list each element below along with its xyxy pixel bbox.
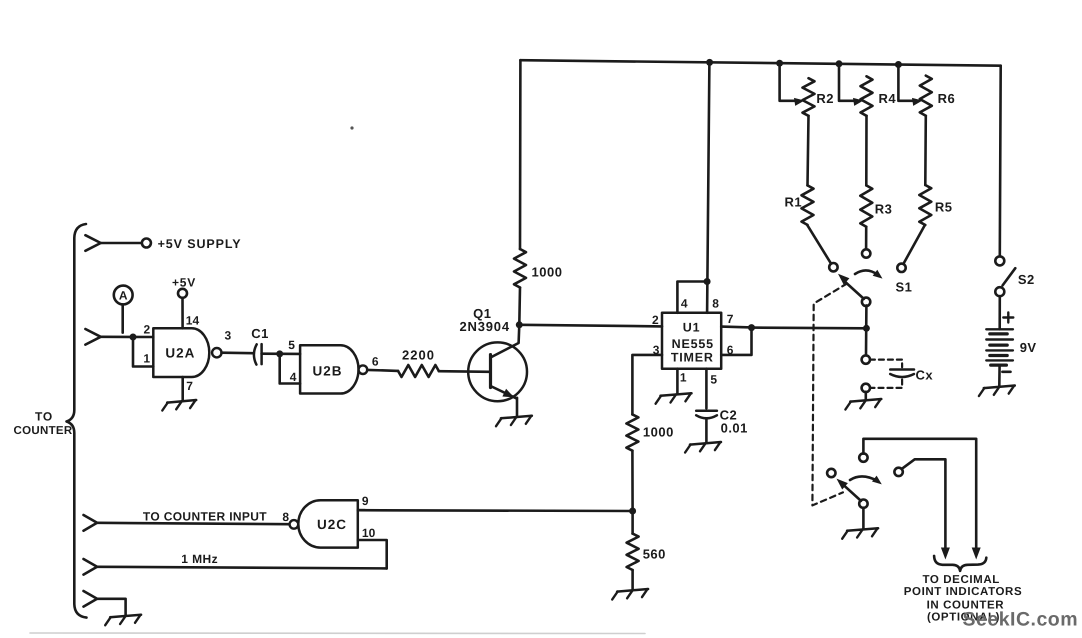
svg-text:2: 2 bbox=[144, 322, 151, 336]
wire pin 3 out bbox=[632, 355, 662, 415]
ground C2 bbox=[690, 442, 721, 445]
wire deck2 pole to ground bbox=[862, 508, 865, 529]
wire Cx circle to ground bbox=[864, 392, 867, 400]
contact deck2 left bbox=[827, 469, 835, 477]
wire R1 to S1 contact bbox=[807, 225, 831, 264]
svg-text:4: 4 bbox=[681, 297, 688, 311]
svg-text:SeekIC.com: SeekIC.com bbox=[963, 609, 1079, 631]
wire U2C pin 9 to node bbox=[358, 509, 633, 512]
svg-text:TO COUNTER INPUT: TO COUNTER INPUT bbox=[143, 510, 267, 524]
wire 2200 to Q1 base bbox=[439, 370, 489, 373]
svg-text:3: 3 bbox=[225, 329, 232, 343]
rotation arrow deck2 bbox=[850, 476, 878, 481]
svg-text:COUNTER: COUNTER bbox=[14, 425, 73, 437]
resistor 1000 pin3 bbox=[626, 414, 638, 450]
svg-text:R2: R2 bbox=[816, 91, 834, 106]
wire pin 4 stub bbox=[677, 282, 707, 313]
wire deck2 top contact up bbox=[863, 439, 976, 549]
arrow to decimal right bbox=[972, 548, 981, 560]
potentiometer R6 bbox=[920, 76, 932, 116]
svg-text:+5V SUPPLY: +5V SUPPLY bbox=[158, 237, 242, 251]
transistor Q1 circle bbox=[468, 342, 527, 401]
svg-text:C1: C1 bbox=[251, 326, 269, 341]
dashed gang link S1 bbox=[812, 284, 847, 506]
brace TO COUNTER bundle bbox=[67, 224, 87, 618]
brace decimal indicators bbox=[934, 556, 986, 571]
resistor 1000 collector load bbox=[514, 249, 526, 288]
pole circle S1 bbox=[862, 298, 870, 306]
resistor R5 bbox=[919, 185, 931, 225]
node rail R6 bbox=[895, 61, 902, 68]
node A junction bbox=[130, 334, 137, 341]
input arrow to U2A bbox=[85, 329, 100, 345]
svg-text:S1: S1 bbox=[896, 280, 913, 295]
nand gate U2B bbox=[300, 345, 358, 393]
wire U2C pin 10 bbox=[358, 540, 387, 568]
wire probe A bbox=[121, 304, 124, 332]
wire 560 to ground bbox=[631, 570, 634, 589]
nand gate U2C bbox=[298, 500, 358, 547]
svg-text:6: 6 bbox=[727, 343, 734, 357]
wire pin 7 to S1 pole bbox=[752, 326, 867, 329]
input arrow +5V supply bbox=[85, 235, 100, 251]
contact S1 right bbox=[897, 264, 905, 272]
node S1 output bbox=[863, 325, 870, 332]
svg-text:Cx: Cx bbox=[916, 367, 934, 382]
ground deck2 bbox=[847, 528, 878, 531]
ground U1 pin 1 bbox=[661, 393, 692, 396]
svg-text:U1: U1 bbox=[683, 320, 701, 334]
svg-text:8: 8 bbox=[282, 510, 289, 524]
ground Q1 bbox=[501, 416, 532, 419]
wire U2A output pin 3 bbox=[222, 351, 253, 354]
contact S1 left bbox=[829, 263, 837, 271]
input arrow counter input bbox=[84, 515, 98, 531]
contact S1 middle bbox=[862, 249, 870, 257]
node U2B input junction bbox=[276, 350, 283, 357]
transistor Q1 base bar bbox=[489, 355, 492, 388]
wire U2A pin1 tie loop bbox=[133, 337, 153, 367]
resistor R3 bbox=[860, 185, 872, 226]
svg-text:8: 8 bbox=[712, 297, 719, 311]
wire dashed to Cx top bbox=[870, 360, 902, 368]
svg-text:POINT INDICATORS: POINT INDICATORS bbox=[904, 586, 1022, 598]
wire Q1 collector to pin 2 bbox=[519, 325, 662, 327]
svg-text:9V: 9V bbox=[1020, 340, 1037, 355]
arrow to decimal left bbox=[941, 548, 950, 560]
wire wiper R2 bbox=[780, 63, 798, 101]
svg-text:NE555: NE555 bbox=[672, 337, 714, 351]
wire U2B pin4 tie loop bbox=[280, 354, 300, 384]
potentiometer R2 bbox=[803, 78, 815, 116]
node rail pin8 bbox=[706, 59, 713, 66]
wire U2C pin 9 stub bbox=[358, 509, 365, 512]
wire rail to S2 bbox=[998, 66, 1002, 257]
ground S1 Cx bbox=[850, 399, 881, 402]
wire wiper R4 bbox=[839, 64, 857, 101]
node rail R2 bbox=[776, 60, 783, 67]
svg-text:U2B: U2B bbox=[312, 363, 342, 378]
wire pin 8 riser bbox=[707, 62, 709, 312]
svg-text:S2: S2 bbox=[1018, 272, 1035, 287]
rotation arrow S1 bbox=[855, 270, 878, 275]
transistor Q1 collector bbox=[491, 325, 520, 358]
wire 1MHz bbox=[97, 567, 387, 569]
svg-text:3: 3 bbox=[653, 343, 660, 357]
wire S1 pole down bbox=[865, 305, 868, 355]
svg-text:2N3904: 2N3904 bbox=[460, 319, 510, 334]
wire pin 7 stub bbox=[721, 325, 751, 328]
contact Cx lower circle bbox=[862, 384, 870, 392]
wire Q1 emitter to ground bbox=[516, 398, 519, 416]
svg-text:U2A: U2A bbox=[165, 346, 195, 361]
wire +5V supply bbox=[101, 242, 142, 245]
svg-text:A: A bbox=[119, 289, 128, 303]
wire U2B output bbox=[367, 370, 398, 371]
svg-text:9: 9 bbox=[362, 494, 369, 508]
node rail R4 bbox=[836, 60, 843, 67]
wire wiper R6 bbox=[898, 65, 915, 101]
resistor 560 bbox=[631, 511, 634, 534]
resistor R1 bbox=[802, 185, 814, 225]
terminal circle +5V supply bbox=[142, 239, 151, 248]
wire TO COUNTER INPUT bbox=[97, 523, 289, 524]
wire S2 to battery bbox=[998, 296, 1001, 329]
wire R2 to R1 bbox=[808, 116, 809, 186]
svg-text:1000: 1000 bbox=[643, 425, 674, 440]
ground battery bbox=[984, 386, 1015, 389]
svg-text:U2C: U2C bbox=[317, 517, 347, 532]
contact Cx upper circle bbox=[862, 355, 870, 363]
wire battery to ground bbox=[998, 365, 1001, 386]
svg-text:R3: R3 bbox=[875, 201, 893, 216]
svg-text:6: 6 bbox=[372, 355, 379, 369]
wire deck2 right contact bbox=[902, 459, 946, 548]
wire bottom input to ground bbox=[97, 599, 126, 616]
svg-text:R1: R1 bbox=[785, 194, 803, 209]
wire C1 to U2B bbox=[262, 352, 301, 355]
svg-text:5: 5 bbox=[288, 338, 295, 352]
svg-text:7: 7 bbox=[186, 379, 193, 393]
wiper blade S1 bbox=[844, 280, 864, 299]
wire U2A pin 7 bbox=[181, 377, 184, 400]
switch S2 bottom circle bbox=[995, 287, 1004, 296]
svg-text:TIMER: TIMER bbox=[671, 351, 714, 365]
svg-text:+5V: +5V bbox=[172, 275, 196, 289]
wire collector riser bbox=[519, 60, 522, 249]
label battery minus bbox=[1002, 370, 1010, 373]
svg-text:14: 14 bbox=[186, 313, 200, 327]
wire pin 6 loop bbox=[721, 328, 751, 355]
svg-text:1 MHz: 1 MHz bbox=[181, 552, 218, 566]
svg-text:1: 1 bbox=[143, 352, 150, 366]
battery B1 9V bbox=[986, 328, 1013, 330]
wiper blade deck2 bbox=[842, 483, 862, 501]
svg-text:TO DECIMAL: TO DECIMAL bbox=[923, 574, 1000, 586]
capacitor C2 bbox=[696, 409, 717, 412]
capacitor C1 bbox=[254, 344, 257, 364]
switch S2 top circle bbox=[995, 256, 1004, 265]
wire C2 to ground bbox=[705, 419, 708, 442]
wire top supply rail bbox=[520, 60, 1000, 65]
transistor Q1 emitter bbox=[491, 386, 517, 399]
wire pin 1 stub bbox=[676, 369, 679, 394]
scan streak bottom bbox=[30, 632, 645, 635]
wire R3 to S1 contact bbox=[865, 227, 868, 250]
wire U2A pin 14 bbox=[181, 298, 184, 329]
contact deck2 top bbox=[859, 453, 867, 461]
svg-text:7: 7 bbox=[727, 312, 734, 326]
svg-text:10: 10 bbox=[362, 526, 376, 540]
capacitor Cx bbox=[890, 368, 914, 371]
svg-text:1: 1 bbox=[680, 371, 687, 385]
scan speck bbox=[350, 126, 353, 129]
svg-text:2: 2 bbox=[652, 313, 659, 327]
wire R5 to S1 contact bbox=[903, 225, 925, 264]
pole circle deck2 bbox=[859, 500, 867, 508]
wire dashed from Cx bottom bbox=[870, 380, 902, 388]
svg-text:R6: R6 bbox=[938, 91, 956, 106]
resistor 2200 bbox=[398, 365, 439, 377]
input arrow ground bbox=[84, 591, 98, 607]
probe A circle bbox=[114, 286, 133, 305]
nand gate U2A bbox=[153, 328, 209, 377]
contact deck2 right bbox=[894, 468, 902, 476]
wire pin 5 stub bbox=[705, 369, 708, 409]
node Q1 collector bbox=[516, 321, 523, 328]
wire input to U2A pin 2 bbox=[101, 335, 154, 338]
svg-text:2200: 2200 bbox=[402, 347, 435, 362]
svg-text:TO: TO bbox=[35, 410, 53, 424]
svg-text:1000: 1000 bbox=[532, 265, 563, 280]
wire R4 to R3 bbox=[865, 116, 868, 186]
svg-text:0.01: 0.01 bbox=[721, 421, 748, 436]
node gate drive bbox=[629, 508, 636, 515]
ic U1 NE555 box bbox=[662, 313, 721, 369]
potentiometer R4 bbox=[861, 76, 873, 116]
svg-text:R5: R5 bbox=[935, 200, 953, 215]
node pins 4-8 bbox=[704, 278, 711, 285]
ground 560 bbox=[617, 589, 648, 592]
wire R6 to R5 bbox=[924, 116, 927, 185]
switch S2 blade bbox=[1003, 268, 1016, 285]
terminal circle +5V U2A bbox=[178, 289, 187, 298]
ground bottom input bbox=[110, 615, 141, 618]
svg-text:5: 5 bbox=[710, 372, 717, 386]
node pin 7 junction bbox=[748, 324, 755, 331]
ground U2A bbox=[167, 400, 196, 403]
svg-text:R4: R4 bbox=[879, 91, 897, 106]
label battery plus bbox=[1003, 316, 1013, 318]
svg-text:4: 4 bbox=[290, 370, 297, 384]
wire 1000 to collector node bbox=[518, 288, 521, 325]
input arrow 1MHz bbox=[84, 559, 98, 575]
wire 1000 to node bbox=[631, 451, 634, 511]
svg-text:560: 560 bbox=[643, 547, 666, 562]
